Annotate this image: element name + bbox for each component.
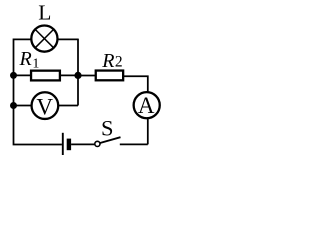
svg-text:1: 1 [32,57,39,72]
svg-text:2: 2 [115,54,123,71]
svg-text:S: S [101,115,114,140]
svg-text:L: L [38,0,51,24]
svg-text:A: A [138,93,155,118]
svg-text:R: R [19,48,32,70]
svg-text:V: V [36,94,53,119]
svg-text:R: R [101,50,114,72]
